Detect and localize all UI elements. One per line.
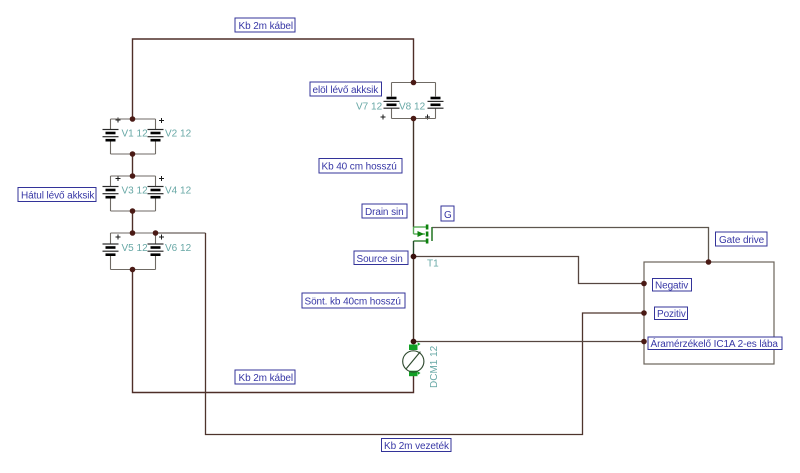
wire bus between V3/V4 and V5/V6 (132, 211, 134, 233)
battery V5 (103, 233, 149, 270)
node junction V7/V8 bottom (411, 116, 417, 122)
wire V7/V8 bottom to MOSFET drain (Kb 40 cm hosszu) (413, 119, 415, 228)
svg-text:Áramérzékelő IC1A 2-es lába: Áramérzékelő IC1A 2-es lába (651, 337, 779, 350)
svg-text:Kb 40 cm hosszú: Kb 40 cm hosszú (322, 162, 397, 173)
node junction Negativ pin (641, 281, 647, 287)
wire bus between V1/V2 and V3/V4 (132, 154, 134, 176)
battery pair V5/V6 parallel rails (111, 233, 156, 270)
battery pair V1/V2 parallel rails (111, 119, 156, 154)
node junction V7/V8 top (411, 80, 417, 86)
svg-text:DCM1 12: DCM1 12 (429, 345, 440, 388)
svg-text:Drain sin: Drain sin (365, 207, 404, 218)
wire gate to Gate drive box (432, 228, 709, 263)
svg-text:G: G (444, 210, 452, 221)
svg-text:Hátul lévő akksik: Hátul lévő akksik (21, 191, 95, 202)
svg-text:elöl lévő akksik: elöl lévő akksik (313, 85, 380, 96)
node junction V6 plus lead (153, 230, 159, 236)
battery V7 (356, 83, 400, 120)
transistor T1 N-MOSFET (414, 225, 440, 270)
svg-text:Gate drive: Gate drive (719, 235, 765, 246)
svg-text:Source sin: Source sin (357, 254, 403, 265)
label G (441, 206, 454, 221)
label Aramerzekelo IC1A 2-es laba (648, 337, 782, 350)
label Source sin (354, 251, 408, 265)
wire top net: battery stack top to V7/V8 top (Kb 2m kabel) (133, 39, 414, 119)
svg-text:V3 12: V3 12 (122, 186, 149, 197)
node junction V5/V6 bottom (130, 267, 136, 273)
svg-text:Kb 2m kábel: Kb 2m kábel (239, 21, 294, 32)
node junction gate drive at box (706, 259, 712, 265)
svg-text:V2 12: V2 12 (165, 129, 192, 140)
svg-text:V8 12: V8 12 (399, 102, 426, 113)
label elol levo akksik (310, 82, 382, 96)
wire DCM1 top to Aramerzekelo pin (414, 341, 645, 343)
wire shunt: source to DCM1 top (Sont. kb 40cm hosszu) (413, 257, 415, 342)
label Kb 2m kabel (bottom) (235, 370, 295, 384)
wire bottom net: V5/V6 bottom to DCM1 bottom (Kb 2m kabel) (133, 270, 414, 393)
battery V1 (103, 118, 149, 155)
battery V2 (148, 118, 192, 154)
battery V6 (148, 233, 192, 270)
label Hatul levo akksik (18, 188, 96, 202)
battery pair V7/V8 parallel rails (392, 83, 436, 119)
svg-text:V1 12: V1 12 (122, 129, 149, 140)
node junction V1/V2 top (130, 116, 136, 122)
battery pair V3/V4 parallel rails (111, 176, 156, 211)
motor DCM1 (403, 342, 440, 388)
label Gate drive (716, 232, 768, 246)
box signal connector block (Negativ/Pozitiv/Aramerzekelo) (644, 262, 774, 364)
svg-text:V6 12: V6 12 (165, 243, 192, 254)
svg-text:V7 12: V7 12 (356, 102, 383, 113)
svg-text:Pozitiv: Pozitiv (657, 309, 686, 320)
battery V3 (103, 176, 149, 211)
node junction V3/V4 bottom (130, 208, 136, 214)
svg-text:V4 12: V4 12 (165, 186, 192, 197)
svg-text:Sönt. kb 40cm hosszú: Sönt. kb 40cm hosszú (305, 297, 401, 308)
node junction source (411, 254, 417, 260)
label Pozitiv (655, 307, 688, 320)
label Kb 40 cm hosszu (319, 159, 402, 174)
battery V4 (148, 176, 192, 211)
node junction V3/V4 top (130, 173, 136, 179)
node junction DCM1 top (411, 339, 417, 345)
label Kb 2m vezetek (382, 439, 452, 453)
label Sont. kb 40cm hosszu (302, 293, 405, 308)
node junction V1/V2 bottom (130, 151, 136, 157)
battery V8 (399, 83, 444, 120)
label Negativ (653, 279, 692, 292)
node junction Pozitiv pin (641, 310, 647, 316)
node junction Aramerzekelo pin (641, 339, 647, 345)
wire V6 plus terminal to Pozitiv pin (Kb 2m vezetek) (156, 233, 645, 435)
label Drain sin (362, 204, 407, 218)
label Kb 2m kabel (top) (235, 18, 295, 32)
svg-text:T1: T1 (427, 259, 439, 270)
svg-text:V5 12: V5 12 (122, 243, 149, 254)
svg-text:Kb 2m kábel: Kb 2m kábel (239, 373, 294, 384)
svg-text:Negativ: Negativ (655, 281, 688, 292)
node junction V5/V6 top left (130, 230, 136, 236)
svg-text:Kb 2m vezeték: Kb 2m vezeték (384, 441, 450, 452)
wire source to Negativ pin (414, 257, 645, 284)
